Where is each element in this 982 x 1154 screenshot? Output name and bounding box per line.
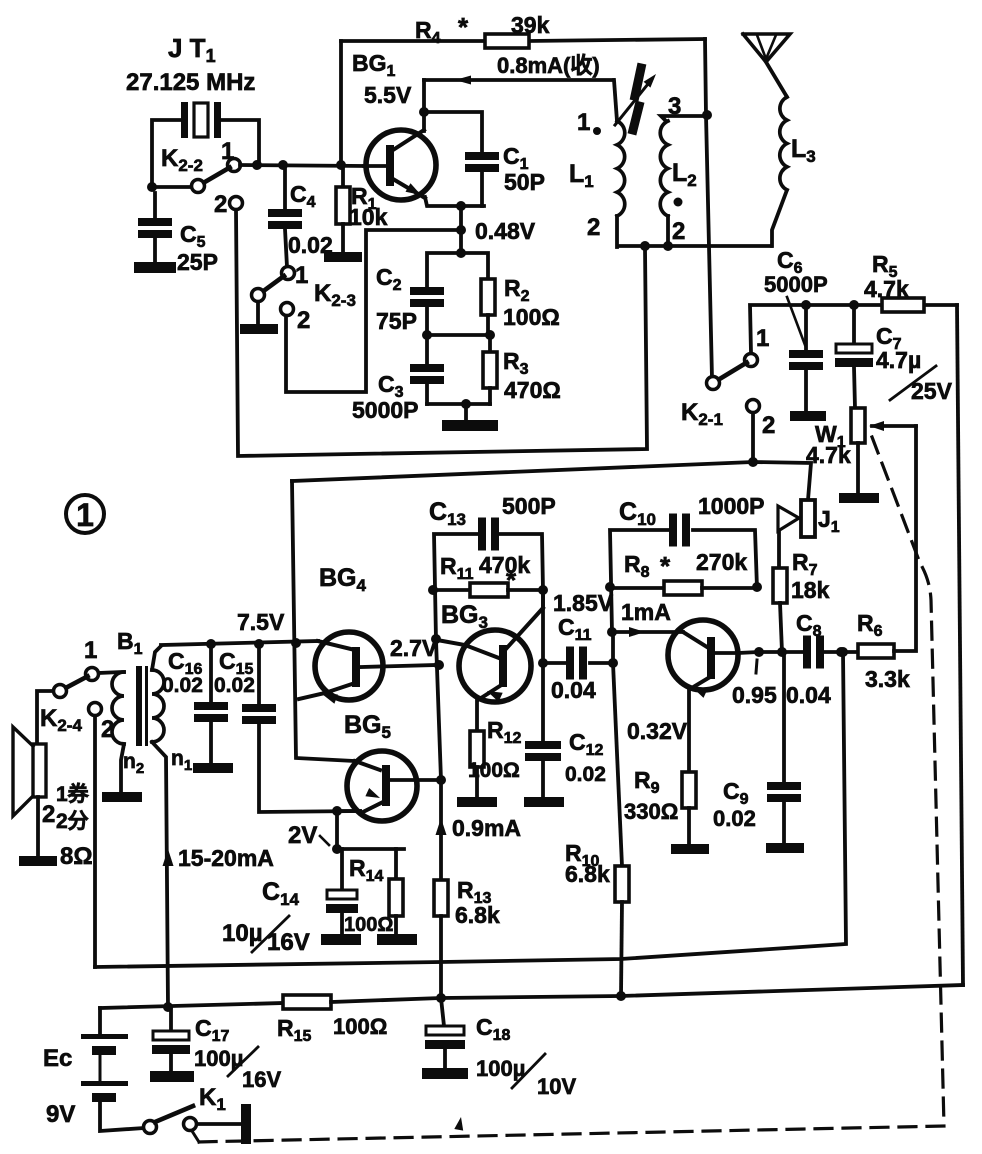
svg-text:2: 2 <box>42 801 55 828</box>
svg-text:0.95: 0.95 <box>732 682 777 708</box>
svg-text:4.7k: 4.7k <box>864 276 909 302</box>
svg-text:6.8k: 6.8k <box>565 861 610 887</box>
svg-text:25P: 25P <box>177 249 218 275</box>
svg-text:6.8k: 6.8k <box>455 902 500 928</box>
svg-text:10V: 10V <box>537 1074 576 1099</box>
svg-text:100Ω: 100Ω <box>503 304 560 330</box>
svg-text:1: 1 <box>76 497 94 533</box>
svg-text:1: 1 <box>221 138 234 165</box>
svg-text:0.9mA: 0.9mA <box>452 815 521 841</box>
svg-text:2分: 2分 <box>56 810 89 833</box>
svg-text:15-20mA: 15-20mA <box>178 845 274 871</box>
svg-text:2: 2 <box>214 191 227 218</box>
svg-text:8Ω: 8Ω <box>60 843 93 870</box>
svg-text:7.5V: 7.5V <box>237 609 285 635</box>
svg-text:*: * <box>506 565 517 595</box>
svg-text:5000P: 5000P <box>764 272 828 297</box>
svg-text:2: 2 <box>101 716 114 743</box>
svg-text:10k: 10k <box>349 204 388 230</box>
svg-text:39k: 39k <box>511 12 550 38</box>
svg-text:2V: 2V <box>288 822 317 849</box>
svg-text:2: 2 <box>587 214 600 241</box>
svg-text:100µ: 100µ <box>476 1056 525 1081</box>
svg-text:27.125 MHz: 27.125 MHz <box>126 69 255 96</box>
svg-text:3: 3 <box>668 93 681 120</box>
svg-text:1: 1 <box>756 325 769 352</box>
svg-text:Ec: Ec <box>43 1045 72 1072</box>
svg-text:4.7µ: 4.7µ <box>876 347 921 373</box>
svg-text:500P: 500P <box>502 493 556 519</box>
svg-text:5000P: 5000P <box>352 397 419 423</box>
svg-text:0.48V: 0.48V <box>475 218 536 244</box>
svg-text:2: 2 <box>762 412 775 439</box>
svg-text:*: * <box>660 551 671 581</box>
svg-text:50P: 50P <box>504 169 545 195</box>
svg-text:470Ω: 470Ω <box>504 377 561 403</box>
svg-text:0.04: 0.04 <box>786 682 831 708</box>
svg-text:2: 2 <box>672 218 685 245</box>
svg-text:0.02: 0.02 <box>713 806 756 831</box>
svg-text:5.5V: 5.5V <box>364 82 412 108</box>
svg-text:100Ω: 100Ω <box>468 759 520 782</box>
svg-text:0.04: 0.04 <box>551 677 596 703</box>
svg-text:2.7V: 2.7V <box>390 635 438 661</box>
svg-text:2: 2 <box>297 307 310 334</box>
svg-text:1: 1 <box>577 109 590 136</box>
svg-text:9V: 9V <box>46 1101 75 1128</box>
svg-text:1mA: 1mA <box>621 599 671 625</box>
svg-text:3.3k: 3.3k <box>865 666 910 692</box>
svg-text:25V: 25V <box>911 378 953 404</box>
svg-text:0.02: 0.02 <box>214 674 255 697</box>
svg-text:*: * <box>458 12 469 42</box>
svg-text:100Ω: 100Ω <box>333 1014 387 1039</box>
svg-text:16V: 16V <box>267 929 310 956</box>
svg-text:0.02: 0.02 <box>565 763 606 786</box>
svg-text:0.32V: 0.32V <box>627 718 688 744</box>
svg-text:1000P: 1000P <box>698 493 765 519</box>
svg-text:0.8mA(收): 0.8mA(收) <box>497 53 600 78</box>
svg-text:18k: 18k <box>791 577 830 603</box>
svg-text:10µ: 10µ <box>222 920 263 947</box>
svg-text:1: 1 <box>295 262 308 289</box>
svg-text:0.02: 0.02 <box>162 674 203 697</box>
svg-text:100Ω: 100Ω <box>344 914 393 936</box>
svg-text:1券: 1券 <box>56 782 90 806</box>
svg-text:270k: 270k <box>696 549 747 575</box>
svg-text:1.85V: 1.85V <box>553 590 614 616</box>
svg-text:1: 1 <box>84 637 97 664</box>
svg-text:470k: 470k <box>479 552 530 578</box>
svg-text:75P: 75P <box>376 308 417 334</box>
svg-text:330Ω: 330Ω <box>624 799 678 824</box>
svg-text:16V: 16V <box>242 1067 281 1092</box>
